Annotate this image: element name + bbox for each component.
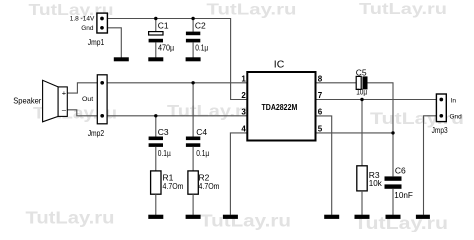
svg-text:10k: 10k bbox=[369, 178, 383, 188]
node junction pin5 wire C6 bbox=[391, 131, 394, 134]
connector Jmp2 bbox=[82, 75, 107, 138]
capacitor C2 0.1u bbox=[186, 19, 208, 58]
watermark TutLay.ru bottom-center bbox=[200, 211, 291, 231]
wire Jmp1 Gnd to ground bbox=[107, 28, 121, 58]
node junction top wire C2 bbox=[191, 17, 194, 20]
svg-text:C3: C3 bbox=[158, 127, 169, 137]
resistor R3 10k bbox=[357, 100, 383, 215]
pin 2 bbox=[241, 91, 246, 100]
wire speaker plus to IC pin1 bbox=[67, 83, 247, 93]
svg-text:5: 5 bbox=[318, 125, 323, 134]
svg-text:Out: Out bbox=[82, 96, 93, 103]
ground (C2) bbox=[186, 57, 201, 61]
wire IC pin6 to ground bbox=[316, 116, 332, 215]
svg-text:+: + bbox=[62, 89, 67, 98]
svg-text:470µ: 470µ bbox=[158, 42, 174, 52]
wire IC pin7 to Jmp3 In bbox=[316, 99, 438, 101]
pin 6 bbox=[318, 107, 323, 116]
ground (IC pin4) bbox=[223, 215, 238, 219]
svg-text:0.1µ: 0.1µ bbox=[196, 148, 209, 158]
ground (C1) bbox=[148, 57, 163, 61]
pin 1 bbox=[241, 74, 246, 83]
svg-text:10nF: 10nF bbox=[394, 190, 413, 200]
capacitor C3 0.1u bbox=[149, 116, 171, 171]
ground (Jmp1) bbox=[114, 57, 129, 61]
node junction pin3 wire C3 bbox=[154, 114, 157, 117]
wire IC pin4 to ground bbox=[230, 133, 247, 215]
wire IC pin8 to C5 bbox=[316, 82, 357, 84]
svg-text:C1: C1 bbox=[158, 21, 169, 31]
svg-text:7: 7 bbox=[318, 91, 323, 100]
svg-text:2: 2 bbox=[241, 91, 246, 100]
speaker bbox=[13, 80, 67, 122]
svg-text:4: 4 bbox=[241, 125, 246, 134]
ground (R3) bbox=[355, 215, 370, 219]
pin 5 bbox=[318, 125, 323, 134]
pin 7 bbox=[318, 91, 323, 100]
watermark TutLay.ru mid-right bbox=[370, 110, 464, 128]
svg-text:8: 8 bbox=[318, 74, 323, 83]
watermark TutLay.ru mid-center bbox=[167, 103, 255, 121]
watermark TutLay.ru mid-left bbox=[33, 105, 117, 123]
svg-text:Gnd: Gnd bbox=[81, 25, 94, 32]
svg-text:Jmp2: Jmp2 bbox=[88, 129, 105, 138]
svg-text:4.7Om: 4.7Om bbox=[199, 181, 220, 191]
svg-text:TutLay.ru: TutLay.ru bbox=[200, 211, 291, 231]
capacitor C6 10nF bbox=[385, 165, 413, 215]
pin 8 bbox=[318, 74, 323, 83]
svg-text:10µ: 10µ bbox=[356, 87, 367, 97]
wire speaker minus to IC pin3 bbox=[67, 110, 247, 116]
watermark TutLay.ru top-left bbox=[29, 2, 114, 19]
svg-text:In: In bbox=[451, 97, 457, 104]
connector Jmp1 bbox=[70, 13, 108, 47]
svg-text:3: 3 bbox=[241, 107, 246, 116]
resistor R2 4.7 Ohm bbox=[188, 171, 220, 215]
capacitor C4 0.1u bbox=[186, 83, 209, 171]
watermark TutLay.ru top-right bbox=[359, 1, 447, 18]
svg-text:C4: C4 bbox=[196, 127, 207, 137]
svg-text:0.1µ: 0.1µ bbox=[195, 42, 208, 52]
wire supply Jmp1 pin1 to IC pin2 bbox=[107, 19, 247, 100]
svg-text:C2: C2 bbox=[195, 21, 206, 31]
ground (R1) bbox=[148, 215, 163, 219]
svg-text:0.1µ: 0.1µ bbox=[158, 148, 171, 158]
connector Jmp3 bbox=[432, 94, 463, 135]
svg-text:6: 6 bbox=[318, 107, 323, 116]
svg-text:Jmp1: Jmp1 bbox=[88, 38, 105, 47]
node junction pin7 wire R3 bbox=[360, 98, 363, 101]
svg-text:Speaker: Speaker bbox=[13, 96, 41, 106]
capacitor C5 10u electrolytic bbox=[356, 67, 368, 96]
wire Jmp3 Gnd to ground bbox=[424, 116, 438, 215]
svg-text:Gnd: Gnd bbox=[450, 113, 463, 120]
svg-text:C5: C5 bbox=[356, 67, 367, 77]
svg-text:4.7Om: 4.7Om bbox=[163, 181, 184, 191]
svg-text:TutLay.ru: TutLay.ru bbox=[359, 1, 447, 18]
svg-text:1.8 -14V: 1.8 -14V bbox=[70, 16, 95, 23]
pin 3 bbox=[241, 107, 246, 116]
wire C5 to C6 branch bbox=[367, 83, 393, 177]
svg-text:TutLay.ru: TutLay.ru bbox=[26, 208, 115, 228]
ground (C6) bbox=[386, 215, 401, 219]
svg-text:1: 1 bbox=[241, 74, 246, 83]
ground (Jmp3) bbox=[416, 215, 430, 219]
op-amp IC TDA2822M bbox=[247, 59, 315, 141]
node junction pin1 wire C4 bbox=[191, 81, 194, 84]
svg-text:IC: IC bbox=[274, 59, 285, 71]
svg-text:TutLay.ru: TutLay.ru bbox=[207, 2, 297, 19]
watermark TutLay.ru top-center bbox=[207, 2, 297, 19]
pin 4 bbox=[241, 125, 246, 134]
capacitor C1 470u electrolytic bbox=[149, 19, 175, 58]
svg-text:C6: C6 bbox=[395, 165, 406, 175]
watermark TutLay.ru bottom-left bbox=[26, 208, 115, 228]
watermark TutLay.ru bottom-right bbox=[354, 213, 448, 233]
ground (R2) bbox=[186, 215, 201, 219]
resistor R1 4.7 Ohm bbox=[151, 171, 184, 215]
wire IC pin5 to C6 branch bbox=[316, 132, 394, 134]
ground (IC pin6) bbox=[324, 215, 339, 219]
node junction top wire C1 bbox=[154, 17, 157, 20]
svg-text:TDA2822M: TDA2822M bbox=[262, 102, 298, 112]
svg-text:Jmp3: Jmp3 bbox=[432, 126, 448, 135]
